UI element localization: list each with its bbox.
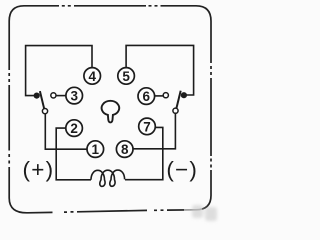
pin 1	[87, 141, 104, 158]
switch SW-right: moving-end contact circle	[173, 108, 178, 113]
wire: left NC contact down then right to pin1	[45, 114, 87, 150]
switch SW-left: blade	[40, 91, 44, 109]
pin 7	[139, 118, 156, 135]
pin 4	[84, 68, 101, 85]
svg-text:3: 3	[70, 89, 78, 104]
pin 8	[116, 141, 133, 158]
svg-text:8: 8	[121, 142, 129, 157]
switch SW-right: blade	[176, 91, 180, 109]
wire: pin6 stub	[155, 95, 163, 97]
svg-text:5: 5	[122, 69, 130, 84]
svg-text:(+): (+)	[23, 157, 55, 182]
svg-text:6: 6	[143, 89, 151, 104]
wire: pin2 stub down to (+) rail and to coil left	[56, 128, 91, 180]
pin 3	[66, 87, 83, 104]
coil L1	[91, 170, 125, 186]
switch SW-right: fixed contact circle (to pin 6)	[163, 93, 168, 98]
switch SW-left: moving-end contact circle	[42, 109, 47, 114]
svg-text:4: 4	[88, 69, 96, 84]
wire: pin4 loop to left switch common	[26, 46, 92, 96]
switch SW-left: fixed contact circle (to pin 3)	[51, 93, 56, 98]
pin 6	[138, 88, 155, 105]
switch SW-left: common pivot	[34, 93, 40, 99]
pin 5	[118, 68, 135, 85]
wire: pin7 stub down to (-) rail and to coil right	[125, 127, 163, 179]
svg-text:2: 2	[70, 121, 78, 136]
keyway	[102, 101, 120, 123]
svg-text:7: 7	[143, 119, 151, 134]
svg-text:(−): (−)	[166, 157, 198, 182]
svg-text:1: 1	[92, 142, 100, 157]
watermark smudge	[184, 208, 202, 213]
socket outline (phantom-line rounded border)	[9, 6, 211, 213]
pin 2	[66, 120, 83, 137]
switch SW-right: common pivot	[181, 92, 187, 98]
wire: pin5 loop to right switch common	[126, 45, 194, 95]
wire: pin8 right to right switch NC riser	[133, 113, 176, 149]
wire: pin3 stub	[56, 95, 66, 97]
